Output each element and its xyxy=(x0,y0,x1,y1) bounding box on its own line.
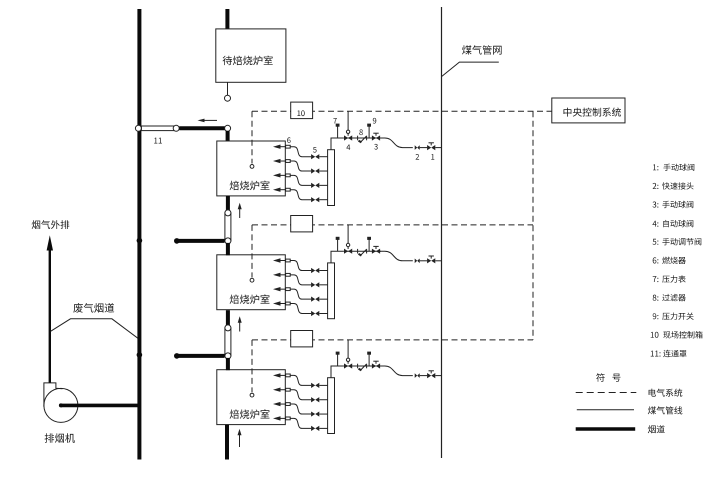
label 废气烟道 xyxy=(73,303,114,313)
flue connector A (furnace1-2) bottom circle xyxy=(225,238,231,244)
train 1 burner 4 hand control valve (component 5) xyxy=(311,197,319,202)
label 3 xyxy=(374,144,378,150)
train 3 burner 3 pipe + S-bend xyxy=(290,404,311,414)
train 1 pressure switch (component 9) xyxy=(368,126,370,138)
legend item 11: 连通罩 xyxy=(651,350,687,357)
legend item 3: 手动球阀 xyxy=(653,201,694,208)
thick flue link to furnace 1 xyxy=(179,126,225,130)
label 煤气管线 xyxy=(648,406,683,414)
train 3 burner 3 pipe to manifold xyxy=(319,413,327,415)
train 3 burner 4 burner body (component 6) xyxy=(286,417,291,420)
label 电气系统 xyxy=(649,389,683,397)
train 2 burner 3 hand control valve (component 5) xyxy=(311,297,319,302)
train 3 pipe (valve run) xyxy=(344,365,381,367)
train 3 burner 4 hand control valve (component 5) xyxy=(311,426,319,431)
train 3 pipe xyxy=(420,375,428,377)
furnace chamber box 3 xyxy=(217,370,285,425)
label 11 xyxy=(154,138,162,144)
train 2 burner 2 hand control valve (component 5) xyxy=(311,282,319,287)
label 焙烧炉室 (furnace 1) xyxy=(230,181,270,191)
legend item 10 现场控制箱 xyxy=(651,331,703,339)
train 2 burner 4 hand control valve (component 5) xyxy=(311,311,319,316)
legend item 9: 压力开关 xyxy=(653,313,694,320)
legend item 1: 手动球阀 xyxy=(653,164,694,171)
train 2 burner 3 arrow into furnace xyxy=(273,287,281,291)
train 2 burner 4 pipe to manifold xyxy=(319,312,327,314)
train 2 burner 2 arrow into furnace xyxy=(273,273,281,277)
furnace chamber box 1 xyxy=(217,141,285,196)
train 2 burner 3 pipe to manifold xyxy=(319,298,327,300)
train 2 burner 4 burner body (component 6) xyxy=(286,302,291,305)
manifold header (train 3) xyxy=(328,378,335,434)
train 1 burner 2 pipe to manifold xyxy=(319,170,327,172)
train 3 quick coupling (component 2) xyxy=(415,373,420,378)
field control box (train 2) xyxy=(291,216,313,232)
train 2 pipe (valve run) xyxy=(344,250,381,252)
flow arrow below furnace 3 xyxy=(239,434,241,447)
dashed electric bus (train 1 to central control) xyxy=(252,110,552,112)
train 1 pressure gauge (component 7) xyxy=(337,126,339,138)
train 1 burner 1 arrow into furnace xyxy=(273,145,281,149)
train 3 pipe to gas main xyxy=(435,375,441,377)
train 3 burner 4 pipe + S-bend xyxy=(290,418,311,428)
train 3 burner 2 arrow into furnace xyxy=(273,388,281,392)
train 1 burner 4 burner body (component 6) xyxy=(286,188,291,191)
label 5 xyxy=(313,147,317,153)
train 1 burner 3 pipe to manifold xyxy=(319,184,327,186)
train 3 burner 1 pipe to manifold xyxy=(319,384,327,386)
train 3 burner 4 pipe to manifold xyxy=(319,427,327,429)
train 3 pressure gauge (component 7) xyxy=(337,354,339,366)
train 1 burner 2 arrow into furnace xyxy=(273,159,281,163)
train 1 burner 2 burner body (component 6) xyxy=(286,160,291,163)
field control box 10 xyxy=(291,102,313,119)
exhaust arrow head xyxy=(47,235,53,250)
sensor circle in furnace 3 xyxy=(250,393,254,397)
fan outlet hub + duct to flue xyxy=(59,403,63,407)
train 2 pipe xyxy=(420,260,428,262)
train 2 burner 1 pipe + S-bend xyxy=(290,261,311,271)
train 1 burner 3 hand control valve (component 5) xyxy=(311,183,319,188)
train 1 burner 2 pipe + S-bend xyxy=(290,161,311,171)
train 3 burner 2 pipe + S-bend xyxy=(290,390,311,400)
main flue duct (vertical thick) xyxy=(137,9,141,460)
label 1 xyxy=(431,154,434,160)
train 1 filter (component 8) xyxy=(357,136,359,141)
legend item 4: 自动球阀 xyxy=(653,220,694,227)
flue connector B (furnace2-3) top circle xyxy=(225,325,231,331)
train 1 quick coupling (component 2) xyxy=(415,145,420,150)
thick flue stub below furnace 3 xyxy=(225,425,229,460)
central control system box xyxy=(552,98,625,123)
legend thin sample (gas line) xyxy=(577,409,634,411)
train 2 pressure gauge (component 7) xyxy=(337,239,339,251)
train 3 burner 1 hand control valve (component 5) xyxy=(311,383,319,388)
label 待焙烧炉室 xyxy=(223,56,273,66)
train 2 burner 3 burner body (component 6) xyxy=(286,288,291,291)
legend item 5: 手动调节阀 xyxy=(653,238,702,245)
train 3 burner 3 burner body (component 6) xyxy=(286,403,291,406)
label 中央控制系统 xyxy=(564,108,622,117)
train 3 automatic ball valve (component 4) xyxy=(344,363,352,368)
connector 11 sleeve rect xyxy=(141,126,175,131)
train 1 manual ball valve (component 3) xyxy=(372,135,380,140)
dashed electric bus (train 3) xyxy=(252,339,533,341)
train 2 burner 2 pipe to manifold xyxy=(319,284,327,286)
train 2 filter (component 8) xyxy=(357,249,359,254)
dashed control drop into furnace 1 xyxy=(251,111,253,163)
label 8 xyxy=(359,129,363,135)
furnace chamber box 2 xyxy=(217,255,285,310)
train 2 quick coupling (component 2) xyxy=(415,259,420,264)
sensor circle in furnace 1 xyxy=(250,165,254,169)
manifold header (train 1) xyxy=(328,150,335,206)
exhaust stack line xyxy=(49,250,51,383)
train 1 pipe to gas main xyxy=(435,147,441,149)
manifold riser (train 2) xyxy=(331,251,344,263)
flue connector A (furnace1-2) thick branch dot xyxy=(174,238,180,244)
fan circle (exhaust fan) xyxy=(44,388,78,422)
dashed electric bus (train 2) xyxy=(252,224,533,226)
train 2 burner 1 arrow into furnace xyxy=(273,258,281,262)
train 2 pressure switch (component 9) xyxy=(368,239,370,251)
train 2 burner 1 pipe to manifold xyxy=(319,270,327,272)
field control box (train 3) xyxy=(291,331,313,347)
train 3 manual ball valve (component 3) xyxy=(372,363,380,368)
train 2 burner 2 pipe + S-bend xyxy=(290,275,311,285)
train 1 burner 1 pipe + S-bend xyxy=(290,147,311,157)
label 煤气管网 xyxy=(462,45,502,54)
waiting furnace box xyxy=(216,29,286,82)
train 1 pipe (valve run) xyxy=(344,137,381,139)
train 1 burner 3 pipe + S-bend xyxy=(290,175,311,185)
train 3 pressure switch (component 9) xyxy=(368,354,370,366)
legend item 7: 压力表 xyxy=(653,275,686,282)
flue connector B (furnace2-3) thick stub from furnace above xyxy=(226,310,230,326)
connector 11 right circle xyxy=(173,125,179,131)
dashed control drop into furnace 2 xyxy=(251,225,253,277)
label 9 xyxy=(373,118,377,124)
leader under 煤气管网 xyxy=(442,62,499,76)
train 2 burner 1 hand control valve (component 5) xyxy=(311,268,319,273)
train 3 burner 1 arrow into furnace xyxy=(273,373,281,377)
train 2 pipe to gas main xyxy=(435,260,441,262)
train 3 burner 4 arrow into furnace xyxy=(273,416,281,420)
flue connector B (furnace2-3) thick branch dot xyxy=(174,353,180,359)
label 7 xyxy=(333,118,336,124)
label 烟气外排 xyxy=(32,220,70,229)
flue connector B (furnace2-3) bottom circle xyxy=(225,353,231,359)
flue junction dot lower xyxy=(137,352,143,358)
fan volute xyxy=(44,383,63,407)
legend dashed sample (electric) xyxy=(576,392,637,394)
flue junction dot upper xyxy=(137,238,143,244)
open joint circle below waiting furnace xyxy=(225,95,231,101)
flow arrow between furnace 2-3 xyxy=(239,322,241,332)
flue connector B (furnace2-3) sleeve rect xyxy=(225,328,231,356)
flue connector B (furnace2-3) thick stub to furnace below xyxy=(226,358,230,370)
train 2 manual ball valve (component 3) xyxy=(372,249,380,254)
train 1 pipe xyxy=(420,147,428,149)
train 2 S-bend to lower leg xyxy=(380,251,413,261)
train 2 burner 4 arrow into furnace xyxy=(273,301,281,305)
label 2 xyxy=(416,154,420,160)
train 1 manual ball valve (component 1) xyxy=(427,145,435,150)
train 1 burner 4 pipe + S-bend xyxy=(290,190,311,200)
train 2 automatic ball valve (component 4) xyxy=(344,249,352,254)
train 1 burner 3 arrow into furnace xyxy=(273,173,281,177)
label 焙烧炉室 (furnace 2) xyxy=(230,294,270,304)
train 2 burner 1 burner body (component 6) xyxy=(286,259,291,262)
train 3 burner 3 hand control valve (component 5) xyxy=(311,411,319,416)
train 3 burner 2 pipe to manifold xyxy=(319,399,327,401)
flue stub above waiting furnace xyxy=(225,9,229,29)
train 3 burner 3 arrow into furnace xyxy=(273,402,281,406)
flue connector B (furnace2-3) thick branch line xyxy=(177,354,225,358)
legend thick sample (flue) xyxy=(576,427,636,431)
train 1 burner 2 hand control valve (component 5) xyxy=(311,168,319,173)
pipe below waiting furnace xyxy=(227,82,229,95)
manifold riser (train 3) xyxy=(331,366,344,378)
gas pipe network main (vertical) xyxy=(441,7,443,458)
label 排烟机 xyxy=(45,433,75,443)
manifold header (train 2) xyxy=(328,263,335,319)
flue connector A (furnace1-2) thick branch line xyxy=(177,239,225,243)
flue connector A (furnace1-2) top circle xyxy=(225,210,231,216)
train 1 burner 3 burner body (component 6) xyxy=(286,174,291,177)
label 10 in control box xyxy=(297,110,304,116)
train 3 manual ball valve (component 1) xyxy=(427,373,435,378)
train 1 burner 4 arrow into furnace xyxy=(273,187,281,191)
flue connector A (furnace1-2) thick stub from furnace above xyxy=(226,196,230,211)
legend item 2: 快速接头 xyxy=(653,182,694,189)
legend item 6: 燃烧器 xyxy=(653,257,686,264)
train 2 burner 4 pipe + S-bend xyxy=(290,303,311,313)
leader under 废气烟道 xyxy=(51,319,138,338)
flue connector A (furnace1-2) sleeve rect xyxy=(225,213,231,241)
train 2 burner 3 pipe + S-bend xyxy=(290,289,311,299)
label 烟道 xyxy=(648,425,665,433)
flow arrow (left) above flue link xyxy=(202,119,217,121)
train 1 automatic ball valve (component 4) xyxy=(344,135,352,140)
train 3 filter (component 8) xyxy=(357,364,359,369)
train 1 S-bend to lower leg xyxy=(380,138,413,148)
label 焙烧炉室 (furnace 3) xyxy=(230,409,270,419)
train 2 burner 2 burner body (component 6) xyxy=(286,273,291,276)
label 6 xyxy=(287,137,290,143)
open joint circle at furnace 1 top elbow xyxy=(225,125,231,131)
label 4 xyxy=(346,145,350,151)
train 1 burner 1 burner body (component 6) xyxy=(286,145,291,148)
dashed electric riser (right) xyxy=(532,111,534,340)
connector 11 left circle on flue xyxy=(135,125,141,131)
train 1 burner 4 pipe to manifold xyxy=(319,199,327,201)
dashed control drop into furnace 3 xyxy=(251,340,253,392)
train 1 burner 1 hand control valve (component 5) xyxy=(311,154,319,159)
manifold riser (train 1) xyxy=(331,138,344,150)
train 3 burner 1 pipe + S-bend xyxy=(290,375,311,385)
train 3 burner 1 burner body (component 6) xyxy=(286,374,291,377)
legend header 符号 xyxy=(596,373,620,382)
train 3 burner 2 hand control valve (component 5) xyxy=(311,397,319,402)
thick flue drop into furnace 1 xyxy=(226,131,230,142)
sensor circle in furnace 2 xyxy=(250,278,254,282)
flue connector A (furnace1-2) thick stub to furnace below xyxy=(226,243,230,255)
train 2 manual ball valve (component 1) xyxy=(427,258,435,263)
train 3 S-bend to lower leg xyxy=(380,366,413,376)
flow arrow between furnace 1-2 xyxy=(239,208,241,218)
train 3 burner 2 burner body (component 6) xyxy=(286,388,291,391)
legend item 8: 过滤器 xyxy=(653,294,686,301)
train 1 burner 1 pipe to manifold xyxy=(319,156,327,158)
